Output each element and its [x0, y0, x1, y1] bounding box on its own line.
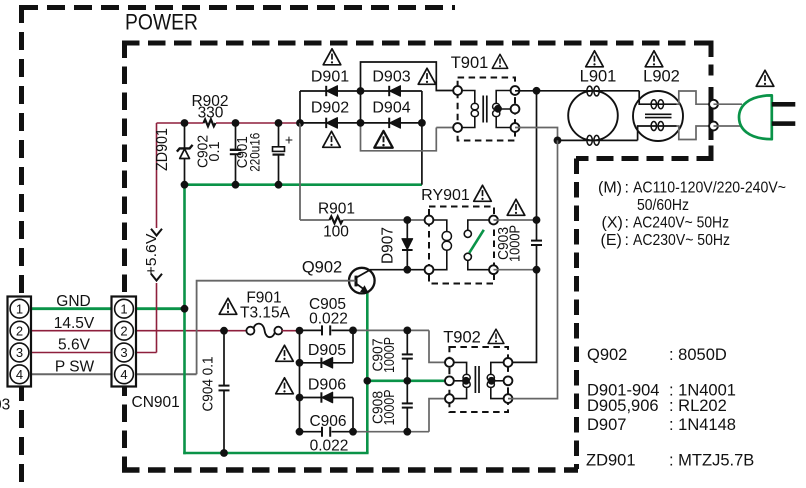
CN901 pin 2 — [115, 321, 134, 340]
CN903 pin 1 — [10, 299, 29, 318]
svg-text:Q902: Q902 — [302, 259, 342, 277]
svg-text:0.022: 0.022 — [310, 438, 349, 455]
svg-text:1000P: 1000P — [382, 337, 398, 373]
dots green row — [364, 377, 372, 385]
svg-text:D905: D905 — [308, 342, 346, 359]
svg-text:1000P: 1000P — [382, 390, 398, 426]
warning triangle RY901 — [474, 185, 492, 201]
wire 14.5V (red) — [20, 330, 247, 332]
green row to T902 — [367, 379, 453, 382]
junction dots rail — [181, 119, 189, 127]
relay RY901 box — [429, 207, 494, 284]
svg-text:03: 03 — [0, 397, 10, 414]
svg-text:220u16: 220u16 — [247, 133, 263, 172]
T902 primary coil — [449, 362, 470, 398]
wire P SW (grey) — [20, 373, 197, 375]
capacitor C903 — [508, 91, 542, 363]
svg-text:L902: L902 — [643, 68, 680, 86]
dots network left — [296, 327, 304, 335]
svg-text:: MTZJ5.7B: : MTZJ5.7B — [669, 452, 754, 470]
svg-text:50/60Hz: 50/60Hz — [637, 197, 689, 214]
svg-text:C904 0.1: C904 0.1 — [201, 357, 217, 412]
wire L902 to terminal top — [677, 91, 714, 104]
svg-text::: : — [625, 215, 629, 232]
svg-text:Q902: Q902 — [587, 346, 627, 364]
POWER box bottom border — [122, 467, 578, 473]
transformer T902 box — [449, 347, 508, 412]
svg-text:2: 2 — [120, 323, 127, 338]
svg-text:POWER: POWER — [125, 10, 198, 35]
svg-text:AC110-120V/220-240V~: AC110-120V/220-240V~ — [633, 180, 786, 197]
warning triangle plug — [756, 70, 774, 86]
capacitor C901 (electrolytic) — [273, 123, 294, 185]
warning triangle below D904 — [374, 131, 392, 148]
wire bridge left vertical — [299, 91, 301, 123]
junction dot GND — [181, 305, 189, 313]
notch border horizontal — [576, 156, 714, 161]
svg-text:AC240V~ 50Hz: AC240V~ 50Hz — [633, 215, 729, 232]
svg-text:3: 3 — [16, 345, 23, 360]
svg-text:D906: D906 — [308, 377, 346, 394]
CN901 pin 3 — [115, 343, 134, 362]
svg-text::: : — [625, 232, 629, 249]
wire T901 bottom jog — [515, 128, 558, 141]
warning triangle D905 — [276, 345, 294, 361]
svg-text:14.5V: 14.5V — [54, 315, 95, 332]
svg-text:D903: D903 — [372, 69, 410, 86]
warning triangle T902 — [488, 329, 504, 343]
wire RY901 to C903 top — [494, 219, 537, 221]
line filter L902 — [633, 91, 683, 141]
warning triangle above D901 — [323, 49, 341, 65]
transformer T901 box — [458, 78, 515, 141]
RY901 switch lever (green) — [469, 230, 484, 253]
warning triangle D906 — [276, 378, 294, 394]
svg-text:1000P: 1000P — [508, 225, 524, 262]
label C903 1000P (rotated) — [496, 225, 524, 262]
RY901 terminals — [425, 216, 434, 225]
svg-text:L901: L901 — [580, 68, 617, 86]
diode D905 — [321, 358, 332, 368]
green bottom rail — [183, 452, 368, 455]
CN903 pin 2 — [10, 321, 29, 340]
diode D901 — [326, 86, 337, 96]
capacitor C906 — [322, 427, 330, 437]
diode D906 — [321, 392, 332, 402]
warning triangle right of D903 — [418, 68, 436, 84]
RY901 coil — [429, 220, 451, 270]
svg-text:R901: R901 — [318, 201, 355, 218]
svg-text:(E): (E) — [601, 232, 622, 249]
capacitor C907 — [402, 330, 413, 380]
resistor R902 — [204, 119, 216, 126]
capacitor C908 — [402, 381, 413, 432]
label C907 1000P (rotated) — [371, 337, 399, 373]
dot T901 top — [533, 87, 541, 95]
dot AC bottom — [554, 137, 562, 145]
svg-text:: RL202: : RL202 — [669, 397, 727, 415]
wire C9x left vertical — [299, 330, 301, 431]
wire 5.6V (red) — [20, 352, 157, 354]
RY901 switch — [464, 220, 493, 270]
warning triangle below D902 — [323, 131, 341, 147]
svg-text:ZD901: ZD901 — [154, 128, 171, 171]
wire C906 row — [300, 431, 354, 433]
svg-text:4: 4 — [16, 367, 23, 382]
T901 core — [483, 96, 487, 123]
wire R901 row — [300, 219, 429, 221]
wire P SW to base — [197, 281, 356, 375]
label C908 1000P (rotated) — [371, 390, 399, 426]
svg-text:D901: D901 — [311, 69, 349, 86]
transistor Q902 — [349, 268, 375, 294]
green rail mid — [185, 183, 422, 186]
capacitor C905 — [322, 325, 330, 335]
wire C905 row to T902 — [429, 330, 454, 362]
POWER box right border — [709, 41, 714, 159]
wire L902 to terminal bottom — [677, 126, 714, 140]
wire +5.6V riser upper (red) — [156, 123, 158, 228]
outer page frame left dashed — [19, 5, 24, 488]
dots C904 — [220, 327, 228, 335]
svg-text:0.022: 0.022 — [309, 311, 348, 328]
warning triangle L902 — [645, 51, 663, 67]
svg-text:D905,906: D905,906 — [587, 397, 659, 415]
T901 terminals — [453, 86, 462, 95]
wire RY901 to C903 bottom — [494, 269, 537, 271]
plug prong bottom — [772, 121, 796, 126]
svg-text:4: 4 — [120, 367, 127, 382]
svg-text:100: 100 — [323, 224, 349, 241]
CN901 pin 4 — [115, 365, 134, 384]
svg-text:: 1N4148: : 1N4148 — [669, 416, 736, 434]
border terminal top — [709, 100, 718, 109]
line filter L901 — [568, 86, 618, 145]
svg-text:AC230V~ 50Hz: AC230V~ 50Hz — [633, 232, 730, 249]
wire diode row 2 — [300, 122, 422, 124]
outer page frame top dashed — [20, 5, 455, 10]
warning triangle L901 — [586, 51, 604, 67]
svg-text:(M): (M) — [598, 180, 622, 197]
wire collector row — [370, 269, 429, 271]
svg-text:0.1: 0.1 — [207, 141, 223, 161]
border terminal bottom — [709, 122, 718, 131]
svg-text:RY901: RY901 — [421, 187, 470, 204]
svg-text::: : — [625, 180, 629, 197]
svg-text:ZD901: ZD901 — [586, 452, 636, 470]
wire D905 row — [300, 330, 354, 362]
label C902 0.1 (rotated) — [196, 135, 224, 168]
wire AC bottom row — [558, 139, 638, 141]
zener diode ZD901 — [177, 123, 193, 185]
dots C903 — [533, 216, 541, 224]
warning triangle F901 — [219, 298, 237, 314]
wire bridge right vertical to green — [421, 91, 423, 185]
svg-text:D904: D904 — [372, 100, 410, 117]
svg-text:P SW: P SW — [55, 359, 95, 376]
svg-text:+5.6V: +5.6V — [143, 234, 160, 276]
diode D903 — [389, 86, 400, 96]
POWER box top border — [122, 41, 713, 46]
wire bridge bottom loop — [361, 123, 437, 151]
wire C906 row right — [353, 431, 429, 433]
svg-text:3: 3 — [120, 345, 127, 360]
svg-text:T901: T901 — [451, 54, 489, 72]
svg-text:GND: GND — [56, 293, 90, 310]
CN903 pin 3 — [10, 343, 29, 362]
wire to plug bottom — [714, 125, 743, 127]
svg-text:330: 330 — [198, 105, 224, 122]
svg-text:1: 1 — [120, 301, 127, 316]
svg-text:T902: T902 — [443, 329, 481, 347]
T901 secondary coil — [493, 91, 515, 128]
warning triangle T901 — [492, 54, 507, 68]
green vertical left — [183, 185, 186, 455]
+5.6V arrowhead 2 — [151, 274, 162, 281]
wire T902 right bottom to AC row — [508, 140, 558, 398]
svg-text:: 8050D: : 8050D — [669, 346, 727, 364]
CN901 pin 1 — [115, 299, 134, 318]
wire fuse out (red) — [282, 330, 300, 332]
svg-text:C906: C906 — [309, 413, 346, 430]
wire bridge top loop to T901 — [361, 62, 454, 91]
label C901 220u16 (rotated) — [235, 133, 263, 172]
wire GND (green) — [20, 307, 185, 310]
svg-text:(X): (X) — [602, 215, 623, 232]
connector CN901 body — [112, 297, 137, 387]
svg-text:D907: D907 — [380, 227, 397, 264]
capacitor C904 — [219, 331, 230, 453]
wire T901 to L901 top — [515, 90, 639, 92]
svg-text:+: + — [285, 132, 293, 148]
svg-text:T3.15A: T3.15A — [240, 305, 291, 322]
wire C905 row right — [353, 329, 429, 331]
diode D907 — [402, 220, 413, 270]
wire D906 row — [300, 398, 354, 432]
plug prong top — [772, 102, 796, 107]
wire C905 row — [300, 329, 354, 331]
+5.6V arrowhead 1 — [151, 229, 162, 236]
warning triangle C903 — [507, 199, 525, 215]
T901 primary coil — [458, 91, 479, 128]
wire bridge mid vertical — [360, 91, 362, 123]
T902 secondary coil — [487, 362, 508, 398]
capacitor C902 — [230, 123, 241, 185]
wire +5.6V riser lower (red) — [156, 283, 158, 353]
wire to plug top — [714, 103, 743, 105]
wire C906 row to T902 — [429, 399, 454, 432]
bridge junction dots — [357, 87, 365, 95]
POWER box left border — [122, 41, 127, 471]
dots C907/C908 — [403, 327, 411, 335]
T902 terminals — [445, 358, 454, 367]
fuse F901 — [246, 324, 282, 338]
connector CN903 body — [8, 297, 32, 387]
svg-text:CN901: CN901 — [132, 394, 180, 411]
svg-text:5.6V: 5.6V — [58, 337, 91, 354]
green emitter vertical — [366, 294, 369, 454]
svg-text:D902: D902 — [311, 100, 349, 117]
T902 core — [475, 366, 479, 393]
dots network right — [349, 327, 357, 335]
svg-text:1: 1 — [16, 301, 23, 316]
svg-text:2: 2 — [16, 323, 23, 338]
CN903 pin 4 — [10, 365, 29, 384]
wire +5.6V rail (red) — [157, 122, 301, 124]
info box left border — [574, 159, 579, 470]
dots D907 — [403, 216, 411, 224]
diode D904 — [389, 118, 400, 128]
wire to T901 pin bottom — [436, 127, 453, 129]
svg-text:D907: D907 — [587, 416, 626, 434]
diode D902 — [326, 118, 337, 128]
AC plug body (green) — [739, 95, 772, 139]
wire diode row 1 — [300, 90, 422, 92]
resistor R901 — [330, 216, 343, 223]
